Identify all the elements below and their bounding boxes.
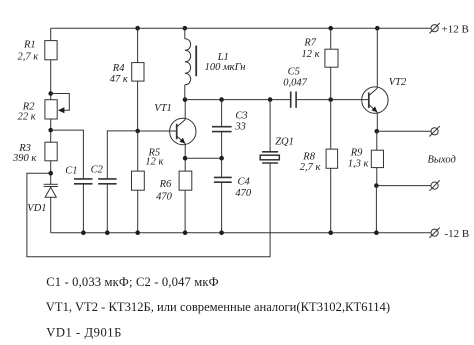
node R7 top rail junction [328, 26, 333, 31]
svg-text:VT1, VT2 - КТ312Б, или совреме: VT1, VT2 - КТ312Б, или современные анало… [46, 300, 390, 314]
svg-text:47 к: 47 к [110, 74, 128, 85]
resistor R2 (trimmer) [45, 100, 57, 119]
wire R7 top lead [330, 28, 332, 49]
svg-text:R4: R4 [112, 63, 125, 74]
transistor VT1 [170, 118, 196, 144]
node R8 ground junction [328, 230, 333, 235]
wire R5 to ground [137, 190, 139, 233]
resistor R7 [325, 49, 338, 67]
svg-text:R9: R9 [350, 148, 363, 159]
node C3/C4 junction [219, 156, 224, 161]
node emitter/C3C4 junction [183, 156, 188, 161]
wire R8 to ground [330, 168, 332, 232]
svg-text:VT1: VT1 [154, 103, 172, 114]
node R4/R5/base junction [135, 129, 140, 134]
svg-text:2,7 к: 2,7 к [18, 52, 39, 63]
resistor R1 [45, 41, 57, 60]
terminal -12V [429, 228, 439, 238]
svg-text:VT2: VT2 [389, 77, 407, 88]
node L1 top rail junction [183, 26, 188, 31]
svg-text:470: 470 [156, 192, 173, 203]
wire R5 top lead [137, 131, 139, 171]
transistor VT2 [362, 87, 388, 113]
wire ZQ1 top lead [269, 100, 271, 152]
svg-text:0,047: 0,047 [283, 78, 307, 89]
wire VT2 collector lead [376, 28, 378, 88]
svg-text:С1 - 0,033 мкФ; С2 - 0,047 мкФ: С1 - 0,033 мкФ; С2 - 0,047 мкФ [46, 275, 219, 289]
node R9/output junction [374, 183, 379, 188]
svg-text:1,3 к: 1,3 к [348, 158, 369, 169]
wire collector node to C5 [185, 99, 291, 101]
terminal output top [429, 126, 439, 136]
terminal output bottom [429, 180, 439, 190]
svg-text:R7: R7 [303, 38, 316, 49]
varicap VD1 [44, 184, 58, 197]
node C2 ground junction [105, 230, 110, 235]
node R7/R8 junction [328, 97, 333, 102]
svg-text:C3: C3 [235, 111, 247, 122]
node C1 ground junction [81, 230, 86, 235]
wire VT1 emitter lead [184, 144, 186, 172]
wire R9 top lead [376, 131, 378, 150]
wire R4 to base node [137, 81, 139, 131]
svg-text:VD1: VD1 [27, 203, 46, 214]
wire emitter to C3/C4 node [185, 157, 222, 159]
wire R7 to node [330, 67, 332, 99]
svg-text:12 к: 12 к [145, 157, 163, 168]
capacitor C2 [98, 179, 116, 233]
node collector/L1 junction [183, 97, 188, 102]
capacitor C1 [74, 179, 93, 233]
wire output node to terminal [377, 130, 431, 132]
wire R6 to ground [184, 190, 186, 233]
node R2/R3/C1 junction [48, 128, 53, 133]
resistor R5 [132, 171, 145, 190]
svg-text:ZQ1: ZQ1 [275, 137, 294, 148]
wire output node to ground [375, 186, 377, 233]
svg-text:2,7 к: 2,7 к [300, 162, 321, 173]
capacitor C3 [212, 127, 232, 159]
wire R4 top lead [137, 28, 139, 62]
wire R9 bottom lead [376, 168, 378, 186]
wire base node to VT1 base [138, 130, 177, 132]
wire output2 node to terminal [376, 185, 431, 187]
wire feedback loop to ZQ1 bottom [27, 163, 270, 256]
wire R1 top lead [50, 28, 52, 40]
wire VT2 emitter lead [376, 112, 378, 131]
node ZQ1 top junction [268, 97, 273, 102]
resistor R8 [326, 149, 338, 168]
node R1/R2/wiper junction [48, 91, 53, 96]
wire VT1 collector lead [184, 100, 186, 120]
node C3 top junction [219, 97, 224, 102]
node R5 ground junction [135, 230, 140, 235]
svg-text:R6: R6 [159, 179, 172, 190]
wire C4 top lead [221, 158, 223, 177]
svg-text:VD1 - Д901Б: VD1 - Д901Б [46, 325, 122, 339]
wire C3 top lead [221, 100, 223, 127]
wire R2 wiper link [51, 94, 70, 111]
svg-text:12 к: 12 к [302, 49, 320, 60]
node output ground junction [374, 230, 379, 235]
crystal ZQ1 [260, 152, 279, 163]
wire R8 top lead [330, 100, 332, 150]
resistor R4 [132, 63, 144, 82]
node R4 top rail junction [135, 26, 140, 31]
svg-text:C5: C5 [288, 67, 300, 78]
svg-text:470: 470 [235, 188, 252, 199]
svg-text:+12 В: +12 В [442, 24, 469, 36]
wire R2 to R3 [50, 119, 52, 142]
wire junction to C1 top [51, 130, 84, 179]
node R6 ground junction [183, 230, 188, 235]
wire VD1 to ground rail [50, 197, 52, 233]
wire R1 to R2 [50, 60, 52, 100]
svg-text:-12 В: -12 В [445, 228, 470, 240]
svg-text:Выход: Выход [428, 155, 456, 166]
resistor R9 [371, 150, 383, 167]
inductor L1 [185, 28, 196, 99]
wire +12V top rail [51, 27, 431, 29]
svg-text:R1: R1 [23, 40, 36, 51]
svg-text:390 к: 390 к [12, 153, 36, 164]
terminal +12V [429, 23, 439, 33]
resistor R3 [45, 142, 57, 161]
R2 wiper arrow [58, 107, 65, 113]
wire C2 top lead [107, 131, 138, 179]
wire C5 to VT2 base [296, 99, 369, 101]
node R3/VD1/feedback junction [48, 171, 53, 176]
wire ground rail [51, 232, 431, 234]
svg-text:C2: C2 [91, 164, 104, 175]
wire R3 to VD1 [50, 161, 52, 185]
svg-text:C1: C1 [65, 166, 77, 177]
svg-text:100 мкГн: 100 мкГн [205, 62, 246, 73]
resistor R6 [179, 171, 192, 190]
node VT2 collector rail junction [375, 26, 380, 31]
svg-text:33: 33 [234, 122, 246, 133]
capacitor C4 [214, 177, 232, 232]
node C4 ground junction [219, 230, 224, 235]
svg-text:22 к: 22 к [18, 111, 36, 122]
capacitor C5 [291, 92, 296, 108]
svg-text:C4: C4 [238, 177, 251, 188]
svg-text:R8: R8 [302, 152, 315, 163]
node emitter output junction [375, 129, 380, 134]
